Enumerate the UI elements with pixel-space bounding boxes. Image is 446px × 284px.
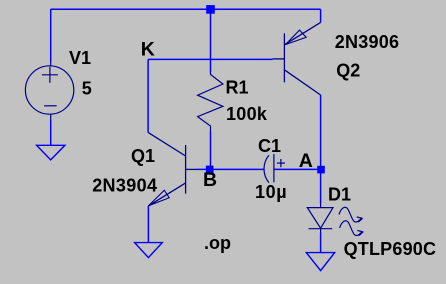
wire Q1 emitter to ground bbox=[147, 206, 149, 243]
junction node A bbox=[317, 166, 325, 174]
svg-text:B: B bbox=[203, 169, 217, 191]
capacitor C1 (polarized) bbox=[264, 154, 285, 183]
svg-text:Q2: Q2 bbox=[336, 61, 360, 81]
svg-text:D1: D1 bbox=[328, 185, 351, 205]
svg-text:Q1: Q1 bbox=[131, 146, 155, 166]
svg-text:5: 5 bbox=[82, 79, 92, 99]
svg-text:C1: C1 bbox=[258, 136, 281, 156]
LED light arrow lower bbox=[340, 221, 364, 236]
svg-text:A: A bbox=[299, 150, 313, 172]
svg-text:QTLP690C: QTLP690C bbox=[344, 239, 437, 259]
wire D1 cathode to ground bbox=[320, 233, 322, 253]
diode D1 (LED) bbox=[307, 204, 333, 233]
junction node top rail bbox=[206, 5, 215, 14]
wire Q2 emitter to rail bbox=[320, 9, 322, 22]
transistor Q1 (NPN, mirrored) bbox=[148, 133, 197, 206]
svg-text:2N3904: 2N3904 bbox=[92, 175, 157, 195]
svg-text:K: K bbox=[141, 38, 155, 60]
wire R1 top drop bbox=[210, 9, 212, 72]
voltage source V1 bbox=[25, 62, 73, 120]
svg-text:100k: 100k bbox=[226, 104, 268, 124]
resistor R1 bbox=[198, 72, 223, 132]
LED light arrow upper bbox=[339, 207, 363, 222]
wire V1 bottom to ground bbox=[50, 120, 52, 146]
svg-text:R1: R1 bbox=[226, 78, 249, 98]
wire K vertical drop to Q1 collector bbox=[147, 59, 149, 132]
ground under D1 bbox=[306, 253, 334, 271]
wire V1 top drop bbox=[50, 9, 52, 61]
wire node B row to C1 bbox=[198, 168, 264, 170]
wire K horizontal bbox=[148, 58, 272, 60]
wire R1 bottom to node B bbox=[210, 132, 212, 170]
ground under V1 bbox=[37, 145, 65, 160]
wire top rail bbox=[51, 8, 321, 10]
svg-text:V1: V1 bbox=[69, 48, 91, 68]
wire Q2 collector down through node A to D1 bbox=[320, 95, 322, 204]
svg-text:2N3906: 2N3906 bbox=[335, 32, 400, 52]
wire C1 to node A bbox=[274, 168, 321, 170]
svg-text:10µ: 10µ bbox=[255, 182, 287, 202]
junction node B bbox=[206, 166, 214, 174]
transistor Q2 (PNP) bbox=[273, 22, 321, 95]
svg-text:.op: .op bbox=[204, 233, 231, 253]
ground under Q1 bbox=[135, 243, 163, 258]
